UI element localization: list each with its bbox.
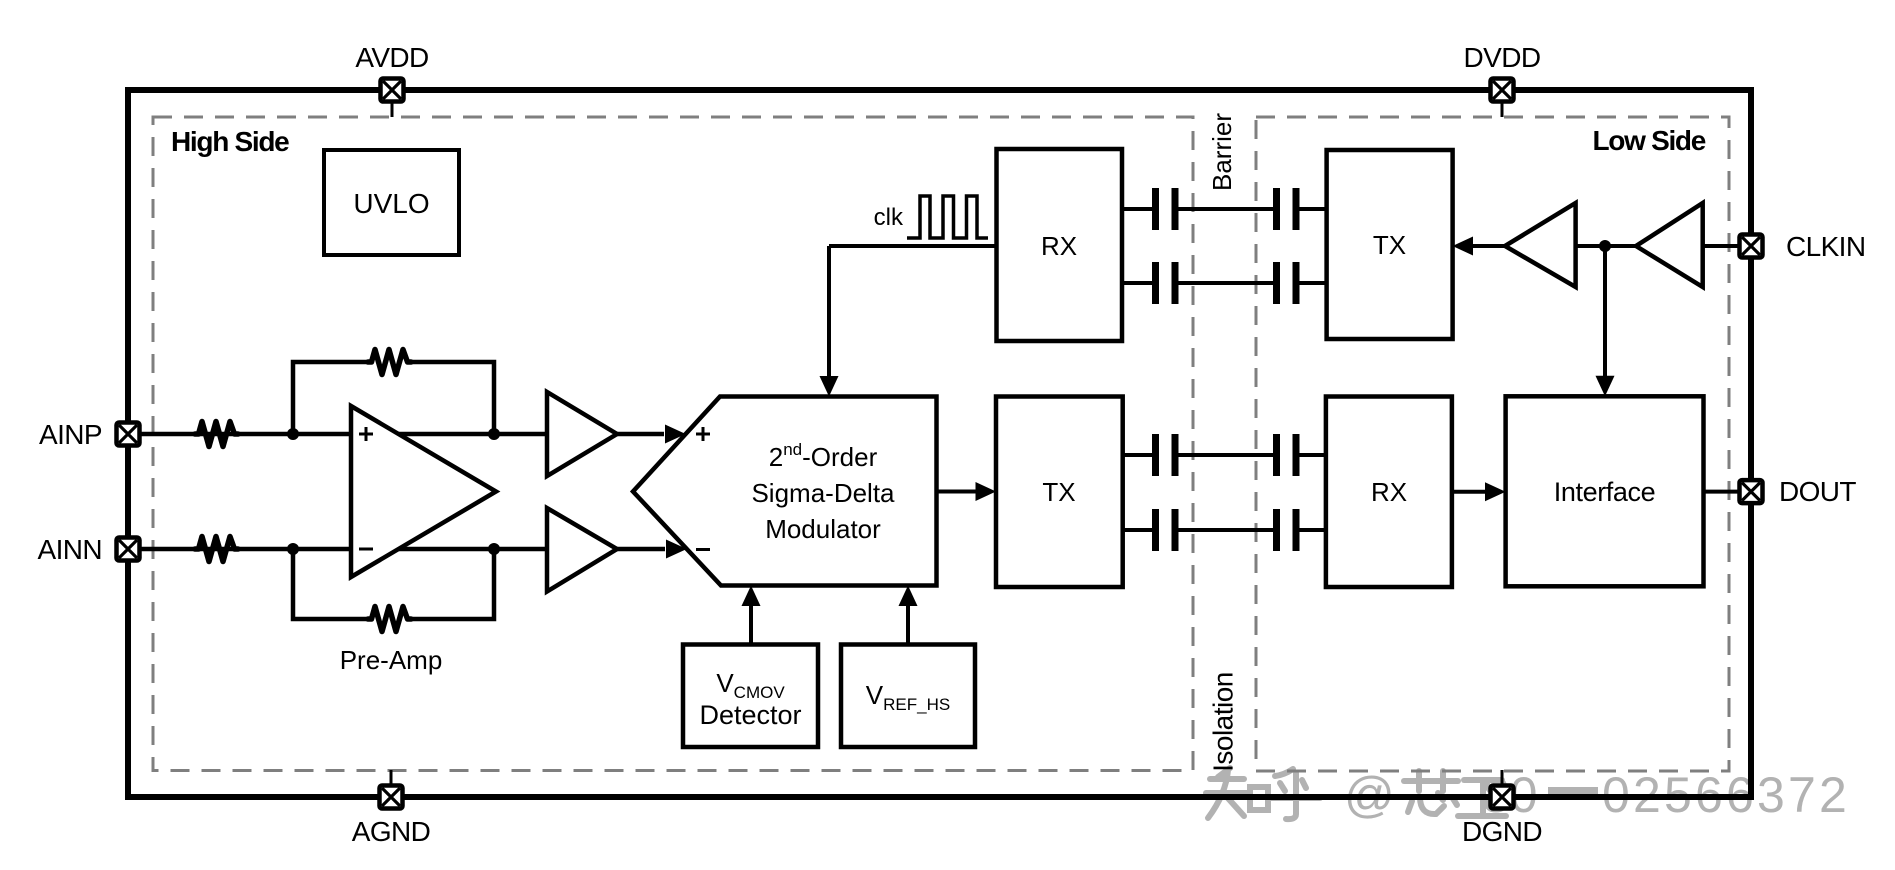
- svg-text:TX: TX: [1042, 477, 1075, 507]
- wire between clk buffers: [1576, 244, 1636, 248]
- RX box low side: [1326, 397, 1452, 588]
- wire VCMOV to modulator: [749, 603, 753, 645]
- svg-text:TX: TX: [1373, 230, 1406, 260]
- arrowhead clk into modulator: [820, 376, 839, 397]
- pin DOUT: [1740, 480, 1763, 503]
- sigma-delta modulator pentagon: [633, 397, 937, 586]
- svg-text:AGND: AGND: [352, 816, 431, 847]
- capacitor bars row B bottom: [1152, 509, 1300, 551]
- wire VREF to modulator: [906, 603, 910, 645]
- capacitor bars row B top: [1152, 434, 1300, 476]
- junction dot AINP-out: [488, 428, 500, 440]
- wire feedback bottom loop: [293, 549, 494, 619]
- V_REF_HS box: [841, 645, 975, 748]
- svg-text:High Side: High Side: [171, 126, 289, 157]
- capacitor bars row A bottom: [1152, 262, 1300, 304]
- buffer triangle upper: [547, 392, 617, 476]
- arrowhead clk into Interface: [1596, 376, 1615, 397]
- low side dashed box: [1256, 117, 1729, 771]
- svg-text:AVDD: AVDD: [355, 42, 428, 73]
- svg-text:Pre-Amp: Pre-Amp: [340, 645, 443, 675]
- arrowhead into TX: [976, 482, 997, 501]
- WATERMARK: [1206, 767, 1850, 823]
- svg-text:Sigma-Delta: Sigma-Delta: [751, 478, 895, 508]
- svg-text:AINP: AINP: [39, 419, 102, 450]
- clk buffer right (points left): [1636, 203, 1703, 287]
- svg-text:RX: RX: [1371, 477, 1407, 507]
- junction dot AINN-R: [287, 543, 299, 555]
- pin CLKIN: [1740, 235, 1763, 258]
- svg-text:Isolation: Isolation: [1207, 672, 1238, 772]
- svg-text:RX: RX: [1041, 231, 1077, 261]
- V_CMOV Detector box: [683, 645, 818, 748]
- svg-text:Barrier: Barrier: [1207, 113, 1237, 191]
- junction dot AINN-out: [488, 543, 500, 555]
- wire clk horizontal: [829, 244, 996, 248]
- wire AINP line: [134, 432, 664, 437]
- svg-text:Modulator: Modulator: [765, 514, 881, 544]
- op-amp minus sign: [359, 548, 373, 551]
- svg-text:Detector: Detector: [699, 700, 801, 730]
- wire clk vertical: [827, 246, 831, 379]
- wire Interface to DOUT: [1704, 490, 1746, 494]
- resistor input R AINP: [195, 422, 238, 447]
- watermark char xin: [1404, 771, 1458, 814]
- svg-text:UVLO: UVLO: [353, 188, 429, 219]
- pin AVDD: [381, 79, 404, 102]
- clk buffer left (points left): [1505, 203, 1576, 287]
- junction dot clk node: [1599, 240, 1611, 252]
- pin AINN: [117, 538, 140, 561]
- capacitor bars row A top: [1152, 188, 1300, 230]
- wire AGND stub: [390, 770, 393, 785]
- isolation caps row B bottom wires: [1123, 528, 1326, 532]
- UVLO box: [324, 150, 459, 255]
- wire feedback top loop: [293, 362, 494, 434]
- svg-text:CLKIN: CLKIN: [1786, 231, 1865, 262]
- TX box high side: [996, 397, 1123, 588]
- wire AVDD stub: [391, 102, 394, 117]
- wire CLKIN to right buffer: [1703, 244, 1745, 248]
- wire DVDD stub: [1501, 102, 1504, 117]
- wire RX to Interface: [1452, 490, 1489, 494]
- pin AINP: [117, 423, 140, 446]
- arrowhead into Interface: [1485, 482, 1506, 501]
- svg-text:DVDD: DVDD: [1464, 42, 1541, 73]
- arrowhead VCMOV up: [742, 586, 761, 607]
- pin DVDD: [1491, 79, 1514, 102]
- watermark char hu: [1270, 769, 1320, 819]
- wire DGND stub: [1501, 770, 1504, 785]
- pin DGND: [1491, 786, 1514, 809]
- isolation caps row A bottom wires: [1122, 281, 1327, 285]
- buffer triangle lower: [547, 508, 617, 592]
- junction dot AINP-R: [287, 428, 299, 440]
- svg-text:DGND: DGND: [1462, 816, 1542, 847]
- resistor feedback bottom: [368, 607, 411, 632]
- wire left buffer to TX: [1468, 244, 1505, 248]
- modulator minus sign: [696, 548, 710, 551]
- resistor input R AINN: [195, 537, 238, 562]
- arrowhead into modulator minus: [666, 540, 687, 559]
- svg-text:Interface: Interface: [1554, 477, 1655, 507]
- wire AINN line: [134, 547, 665, 552]
- Interface box: [1506, 396, 1704, 586]
- svg-text:Low Side: Low Side: [1593, 125, 1706, 156]
- resistor feedback top: [368, 350, 411, 375]
- arrowhead into modulator plus: [665, 425, 686, 444]
- TX box low side: [1327, 150, 1453, 339]
- isolation caps row A top wires: [1122, 207, 1327, 211]
- clk square wave: [907, 196, 988, 238]
- watermark char zhi: [1206, 768, 1268, 818]
- wire modulator to TX: [937, 490, 980, 494]
- svg-text:clk: clk: [874, 204, 904, 231]
- high side dashed box: [153, 117, 1193, 771]
- arrowhead into TX low side: [1453, 237, 1474, 256]
- modulator plus sign: [696, 427, 710, 441]
- op-amp plus sign: [359, 427, 373, 441]
- arrowhead VREF up: [899, 586, 918, 607]
- RX box high side: [997, 149, 1123, 341]
- wire clk node down to Interface: [1603, 246, 1607, 379]
- svg-text:AINN: AINN: [38, 534, 103, 565]
- svg-text:DOUT: DOUT: [1779, 476, 1856, 507]
- watermark char gong: [1458, 780, 1506, 816]
- isolation caps row B top wires: [1123, 453, 1326, 457]
- chip outer border: [128, 90, 1751, 797]
- pin AGND: [380, 786, 403, 809]
- op-amp pre-amp triangle: [351, 406, 496, 577]
- watermark dash: [1548, 787, 1598, 795]
